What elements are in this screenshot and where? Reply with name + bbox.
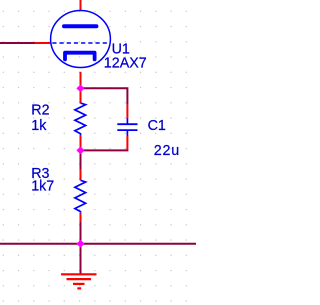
svg-text:12AX7: 12AX7 — [104, 56, 147, 72]
svg-text:22u: 22u — [154, 143, 180, 159]
svg-text:1k7: 1k7 — [31, 178, 54, 194]
svg-text:C1: C1 — [148, 118, 166, 134]
svg-text:R2: R2 — [31, 102, 49, 118]
svg-text:1k: 1k — [31, 118, 47, 134]
